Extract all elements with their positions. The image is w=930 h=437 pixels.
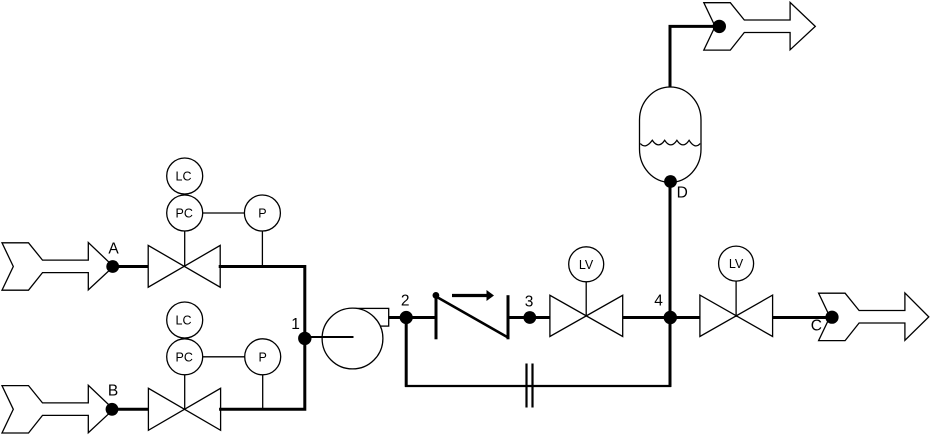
- svg-text:C: C: [811, 317, 822, 334]
- svg-text:4: 4: [654, 293, 663, 310]
- svg-text:LV: LV: [579, 258, 594, 272]
- svg-text:PC: PC: [176, 207, 193, 221]
- svg-text:D: D: [677, 185, 688, 202]
- svg-text:P: P: [258, 207, 266, 221]
- svg-text:LC: LC: [176, 314, 192, 328]
- svg-text:2: 2: [401, 293, 410, 310]
- svg-text:3: 3: [525, 293, 534, 310]
- svg-text:A: A: [108, 241, 119, 258]
- svg-text:PC: PC: [176, 350, 193, 364]
- svg-text:P: P: [259, 350, 267, 364]
- svg-text:LC: LC: [176, 170, 192, 184]
- svg-text:LV: LV: [729, 257, 744, 271]
- svg-text:B: B: [108, 383, 118, 400]
- svg-text:1: 1: [291, 316, 300, 333]
